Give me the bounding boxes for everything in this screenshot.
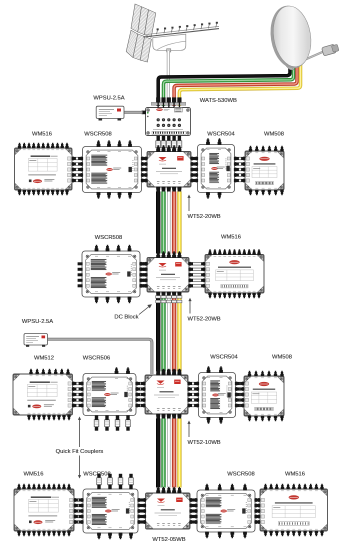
label WT52-05WB row4 [152, 537, 185, 543]
wire bundle WSCR508 to WM516 row4 [254, 498, 262, 524]
tap WT52-20WB row1 [143, 145, 195, 193]
svg-text:WSCR504: WSCR504 [210, 354, 238, 360]
svg-text:WM516: WM516 [32, 131, 52, 137]
label WM516 row4 right [285, 471, 305, 477]
multiswitch WM516 row4 right [256, 484, 327, 536]
label WSCR504 row3 [210, 354, 238, 360]
label WT52-20WB row1 [188, 214, 221, 220]
svg-text:WSCR504: WSCR504 [207, 131, 235, 137]
multiswitch WM516 row4 left [14, 484, 78, 536]
gray power cable from WPSU-2.5A to amplifier [124, 111, 143, 114]
svg-text:WPSU-2.5A: WPSU-2.5A [22, 319, 53, 325]
leader line tap row1 [187, 195, 190, 212]
leader DC Block arrow [139, 304, 152, 314]
label WM508 row1 [264, 131, 284, 137]
wire bundle WSCR504 to WM508 row1 [233, 157, 247, 183]
wire bundle tap to WM516 row2 [188, 262, 207, 288]
arrow to tap row3 [187, 421, 190, 438]
wire bundle tap to WSCR504 row1 [190, 157, 200, 183]
label WPSU-2.5A row3 [22, 319, 53, 325]
multiswitch WM512 row3 [13, 369, 76, 420]
multiswitch WSCR508 row4 right [193, 484, 260, 538]
black coax cable from dish LNB to amplifier input [158, 63, 290, 107]
arrow to tap row2 [188, 298, 191, 314]
label WSCR508 row2 [95, 235, 122, 241]
label WPSU-2.5A top [93, 96, 124, 102]
svg-text:WM508: WM508 [272, 354, 292, 360]
wire bundle tap to WSCR508 row4 [189, 498, 199, 524]
svg-text:WSCR508: WSCR508 [227, 471, 254, 477]
leader Quick Fit Couplers up [78, 417, 81, 448]
wire bundle WM516 to WSCR508 row1 [71, 157, 85, 183]
terrestrial antenna [126, 4, 219, 62]
svg-text:Quick Fit Couplers: Quick Fit Couplers [56, 449, 104, 455]
wire bundle WSCR508 to tap row1 [140, 157, 149, 183]
label WSCR504 row1 [207, 131, 235, 137]
label WATS-530WB [200, 98, 237, 104]
wire bundle WM516 to WSCR508 row4 [73, 498, 85, 524]
wire bundle WSCR506 to tap row3 [135, 382, 147, 408]
multiswitch WM516 row2 [201, 249, 264, 298]
label Quick Fit Couplers [56, 449, 104, 455]
svg-text:WM516: WM516 [24, 471, 44, 477]
svg-text:WM508: WM508 [264, 131, 284, 137]
tap WT52-05WB row4 [142, 487, 195, 529]
svg-text:WM512: WM512 [34, 355, 54, 361]
svg-text:WT52-10WB: WT52-10WB [188, 440, 221, 446]
svg-text:WM516: WM516 [221, 235, 241, 241]
wire bundle WSCR508 to tap row4 [137, 498, 148, 524]
trunk cables tap2 to tap3 with DC blocks [156, 292, 182, 375]
label WM516 row1 [32, 131, 52, 137]
svg-text:WSCR508: WSCR508 [84, 131, 111, 137]
svg-text:WSCR508: WSCR508 [83, 471, 110, 477]
amplifier WATS-530WB [142, 97, 191, 135]
wire bundle WM512 to WSCR506 row3 [71, 382, 85, 408]
svg-text:WPSU-2.5A: WPSU-2.5A [93, 96, 124, 102]
svg-text:WATS-530WB: WATS-530WB [200, 98, 237, 104]
power supply WPSU-2.5A row3 [24, 334, 48, 347]
label WSCR508 row4 left [83, 471, 110, 477]
multiswitch WSCR508 row2 [78, 245, 145, 303]
satellite dish [266, 3, 339, 71]
multiswitch WSCR506 row3 [79, 367, 141, 430]
svg-text:WT52-20WB: WT52-20WB [188, 214, 221, 220]
label WM508 row3 [272, 354, 292, 360]
multiswitch WSCR504 row1 [193, 138, 239, 198]
label WM516 row4 left [24, 471, 44, 477]
trunk cables tap1 to tap2 [156, 187, 181, 253]
green coax cable from dish LNB to amplifier input [164, 63, 294, 107]
svg-text:DC Block: DC Block [114, 314, 138, 320]
svg-text:WM516: WM516 [285, 471, 305, 477]
power supply WPSU-2.5A top [96, 106, 124, 120]
wire bundle tap to WSCR504 row3 [187, 382, 201, 408]
svg-text:WSCR506: WSCR506 [83, 355, 110, 361]
coupler stubs between amplifier outputs and first tap [156, 136, 182, 153]
svg-text:WSCR508: WSCR508 [95, 235, 122, 241]
trunk cables tap3 to tap4 [156, 414, 181, 487]
multiswitch WM516 row1 [15, 143, 76, 195]
multiswitch WSCR508 row1 [78, 140, 146, 198]
label WSCR508 row1 [84, 131, 111, 137]
gray power cable WPSU to tap row3 [48, 339, 152, 374]
yellow coax cable from dish LNB to amplifier input [179, 63, 300, 107]
svg-text:WT52-05WB: WT52-05WB [152, 537, 185, 543]
tap WT52-10WB row3 [141, 369, 192, 420]
label WSCR508 row4 right [227, 471, 254, 477]
svg-text:WT52-20WB: WT52-20WB [188, 316, 221, 322]
tap WT52-20WB row2 [143, 251, 193, 298]
multiswitch WSCR508 row4 left [79, 474, 143, 539]
label WT52-10WB row3 [188, 440, 221, 446]
red coax cable from dish LNB to amplifier input [174, 63, 297, 107]
multiswitch WM508 row3 [240, 371, 284, 421]
multiswitch WM508 row1 [241, 146, 284, 195]
white coax cable from terrestrial antenna to amplifier input [167, 51, 170, 106]
label WT52-20WB row2 [188, 316, 221, 322]
leader Quick Fit Couplers down [78, 456, 81, 479]
multiswitch WSCR504 row3 [194, 366, 240, 423]
label DC Block [114, 314, 138, 320]
label WSCR506 row3 [83, 355, 110, 361]
label WM516 row2 [221, 235, 241, 241]
label WM512 row3 [34, 355, 54, 361]
wire bundle WSCR508 to tap row2 [139, 262, 149, 288]
wire bundle WSCR504 to WM508 row3 [234, 382, 246, 408]
